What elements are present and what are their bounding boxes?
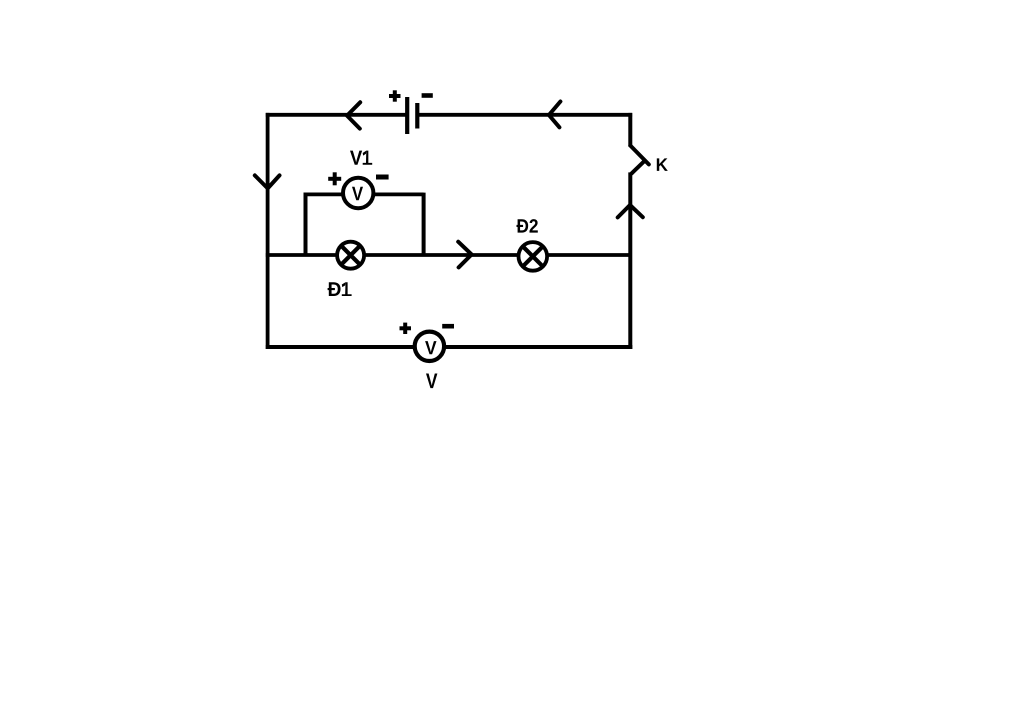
voltmeter V letter <box>425 341 436 354</box>
lamp Đ2 body <box>519 242 548 271</box>
wire: right side lower (switch to bottom) <box>628 172 632 349</box>
voltmeter V1 body <box>343 178 373 208</box>
voltmeter V1 letter <box>352 187 363 200</box>
voltmeter V1 + mark <box>328 172 341 185</box>
wire: right side upper (top wire to switch) <box>628 113 632 147</box>
wire: left side <box>266 113 270 349</box>
lamp Đ2 cross <box>523 247 543 267</box>
current arrow on middle wire (pointing right) <box>458 242 471 268</box>
current arrow on top wire (right, pointing left) <box>549 102 561 128</box>
lamp Đ1 body <box>337 242 364 269</box>
label V <box>426 374 437 389</box>
battery positive plate (long) <box>405 97 409 134</box>
wire: bottom <box>266 345 633 349</box>
label V1 <box>350 151 372 165</box>
wire: V1 branch left vertical <box>304 193 308 255</box>
voltmeter V1 − mark <box>376 175 389 180</box>
label Đ1 <box>328 282 352 296</box>
current arrow on right wire (pointing up) <box>618 205 643 217</box>
wire: middle horizontal <box>266 253 630 257</box>
battery + polarity mark <box>389 90 401 101</box>
label K <box>657 158 668 171</box>
voltmeter V + mark <box>400 323 412 334</box>
wire: V1 branch top horizontal <box>304 192 424 196</box>
switch K lower contact <box>632 161 644 173</box>
voltmeter V body <box>415 332 444 361</box>
lamp Đ1 cross <box>341 246 360 265</box>
current arrow on left wire (pointing down) <box>255 175 280 188</box>
wire: top (right of battery) <box>419 113 632 117</box>
current arrow on top wire (left, pointing left) <box>347 102 360 128</box>
switch K blade <box>630 146 648 165</box>
wire: V1 branch right vertical <box>422 193 426 255</box>
label Đ2 <box>517 219 538 233</box>
battery negative plate (short) <box>415 103 419 129</box>
battery − polarity mark <box>422 93 433 98</box>
wire: top (left of battery) <box>266 113 406 117</box>
voltmeter V − mark <box>442 324 454 329</box>
